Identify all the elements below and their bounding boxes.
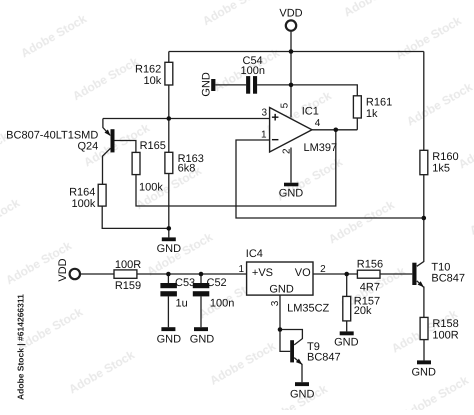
svg-text:1: 1: [238, 264, 244, 275]
svg-text:BC847: BC847: [307, 352, 341, 364]
svg-text:LM397: LM397: [304, 142, 338, 154]
svg-text:GND: GND: [334, 336, 359, 348]
svg-text:GND: GND: [290, 389, 315, 401]
svg-text:Q24: Q24: [78, 140, 99, 152]
svg-text:100k: 100k: [139, 182, 163, 194]
svg-text:1k: 1k: [366, 108, 378, 120]
svg-text:GND: GND: [157, 243, 182, 255]
svg-text:20k: 20k: [354, 305, 372, 317]
svg-text:100R: 100R: [115, 259, 141, 271]
svg-text:GND: GND: [157, 333, 182, 345]
svg-text:R158: R158: [432, 318, 458, 330]
svg-text:3: 3: [261, 108, 267, 119]
svg-text:IC4: IC4: [246, 248, 263, 260]
svg-text:100k: 100k: [72, 198, 96, 210]
svg-text:LM35CZ: LM35CZ: [287, 303, 329, 315]
svg-text:IC1: IC1: [302, 106, 319, 118]
svg-text:10k: 10k: [144, 75, 162, 87]
svg-text:GND: GND: [269, 283, 294, 295]
svg-text:6k8: 6k8: [178, 162, 196, 174]
svg-text:2: 2: [281, 148, 292, 154]
svg-text:100n: 100n: [241, 65, 265, 77]
svg-text:3: 3: [270, 300, 281, 306]
svg-text:GND: GND: [200, 72, 212, 97]
svg-text:R156: R156: [357, 258, 383, 270]
svg-text:GND: GND: [411, 367, 436, 379]
svg-text:5: 5: [280, 102, 291, 108]
svg-text:R160: R160: [432, 151, 458, 163]
svg-text:C52: C52: [207, 277, 227, 289]
svg-text:VO: VO: [295, 267, 311, 279]
svg-text:100R: 100R: [432, 329, 458, 341]
svg-text:1k5: 1k5: [432, 162, 450, 174]
svg-text:100n: 100n: [210, 297, 234, 309]
svg-text:1u: 1u: [176, 297, 188, 309]
svg-text:GND: GND: [279, 188, 304, 200]
svg-text:R165: R165: [140, 140, 166, 152]
svg-text:4R7: 4R7: [360, 281, 380, 293]
svg-text:R161: R161: [366, 97, 392, 109]
svg-text:GND: GND: [190, 333, 215, 345]
svg-text:4: 4: [315, 118, 321, 129]
svg-text:−: −: [271, 132, 279, 147]
svg-text:+VS: +VS: [252, 267, 273, 279]
svg-text:BC847: BC847: [431, 273, 465, 285]
svg-text:R159: R159: [115, 280, 141, 292]
svg-text:+: +: [271, 109, 279, 124]
svg-text:R164: R164: [69, 187, 95, 199]
svg-text:VDD: VDD: [279, 7, 302, 19]
svg-text:VDD: VDD: [57, 258, 69, 281]
svg-text:Adobe Stock | #614266311: Adobe Stock | #614266311: [16, 294, 26, 400]
svg-text:R162: R162: [135, 63, 161, 75]
svg-text:C53: C53: [175, 277, 195, 289]
svg-text:2: 2: [320, 264, 326, 275]
svg-text:1: 1: [261, 130, 267, 141]
